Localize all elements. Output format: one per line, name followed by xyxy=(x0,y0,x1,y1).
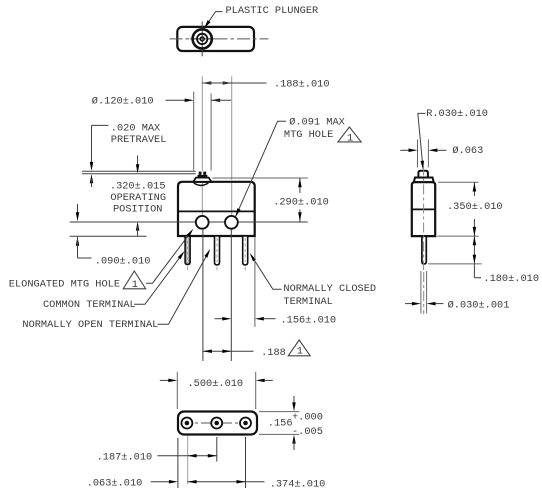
dimension .320 operating position arrows xyxy=(137,156,139,168)
svg-text:1: 1 xyxy=(132,279,138,291)
leader common terminal xyxy=(134,253,183,304)
dimension .290 dim line xyxy=(299,178,301,193)
side view centerline xyxy=(423,166,425,271)
svg-text:ELONGATED MTG HOLE: ELONGATED MTG HOLE xyxy=(9,278,120,290)
side view pin xyxy=(422,236,426,264)
leader elongated mtg hole xyxy=(146,231,192,283)
svg-text:.156: .156 xyxy=(268,418,293,430)
dimension .374 xyxy=(188,481,246,483)
svg-text:NORMALLY CLOSED: NORMALLY CLOSED xyxy=(283,283,376,295)
svg-text:PLASTIC PLUNGER: PLASTIC PLUNGER xyxy=(226,5,319,17)
flag triangle 1 (mtg hole) xyxy=(338,127,361,142)
dimension .120: leader and arrows xyxy=(166,99,191,101)
dimension .500 arrows xyxy=(160,379,169,381)
svg-text:.290±.010: .290±.010 xyxy=(273,197,329,209)
top view plunger inner circle xyxy=(200,37,204,41)
svg-text:.020 MAX: .020 MAX xyxy=(111,123,160,135)
dimension .180 dim line xyxy=(473,236,475,264)
svg-text:TERMINAL: TERMINAL xyxy=(283,296,332,308)
leader normally open terminal xyxy=(158,251,210,324)
svg-text:+.000: +.000 xyxy=(292,412,323,424)
dimension .020 pretravel arrows xyxy=(91,125,93,165)
centerline right hole axis (D) xyxy=(231,76,233,180)
svg-text:.063±.010: .063±.010 xyxy=(87,478,143,490)
extension line body right edge xyxy=(254,238,256,328)
plunger tip front view xyxy=(198,175,208,178)
dimension .188 top: dim line xyxy=(202,82,266,84)
plunger seat arc xyxy=(194,183,209,185)
dimension .500 extension lines xyxy=(176,372,178,409)
flag triangle (elongated mtg hole) xyxy=(123,271,146,289)
svg-text:.500±.010: .500±.010 xyxy=(188,378,244,390)
dimension .350 dim line xyxy=(473,182,475,196)
svg-text:1: 1 xyxy=(297,346,303,358)
leader R.030 xyxy=(418,113,426,166)
body bottom extension line left xyxy=(70,235,147,237)
svg-text:.350±.010: .350±.010 xyxy=(447,201,503,213)
svg-text:-.005: -.005 xyxy=(292,426,323,438)
leader mtg hole 0.091 xyxy=(236,121,286,216)
dimension .020 leader elbow xyxy=(92,124,109,126)
svg-text:OPERATING: OPERATING xyxy=(110,192,166,204)
dimension .350 extension lines xyxy=(438,181,478,183)
dimension .156 tol arrows xyxy=(293,396,295,406)
svg-text:.374±.010: .374±.010 xyxy=(270,479,326,491)
svg-text:.090±.010: .090±.010 xyxy=(95,256,151,268)
bottom view terminal 2 xyxy=(211,418,222,429)
svg-text:.320±.015: .320±.015 xyxy=(110,180,166,192)
front view body outline xyxy=(178,182,255,236)
hole centerline extension xyxy=(70,221,308,223)
svg-text:Ø.120±.010: Ø.120±.010 xyxy=(92,95,154,107)
svg-text:Ø.091 MAX: Ø.091 MAX xyxy=(289,117,345,129)
dimension .156 (hole to edge) xyxy=(215,318,224,320)
bottom view terminal 1 xyxy=(181,418,192,429)
svg-text:COMMON TERMINAL: COMMON TERMINAL xyxy=(43,299,136,311)
side view body xyxy=(412,182,435,236)
extension line left hole center to .188 dim xyxy=(202,230,204,361)
svg-text:MTG HOLE: MTG HOLE xyxy=(284,129,333,141)
svg-text:POSITION: POSITION xyxy=(113,203,162,215)
normally closed terminal pin (right) xyxy=(243,236,248,265)
flag triangle (.188) xyxy=(288,340,310,356)
svg-text:Ø.063: Ø.063 xyxy=(452,145,483,157)
normally open terminal pin (middle) xyxy=(215,236,220,265)
extension line plunger right (C) xyxy=(210,94,212,171)
side view plunger cap xyxy=(418,171,428,178)
svg-text:.188: .188 xyxy=(261,347,286,359)
right mounting hole xyxy=(225,216,238,229)
centerline plunger axis upper (B) xyxy=(201,76,203,171)
dimension .290: extension lines xyxy=(213,177,308,179)
bottom view terminal 3 xyxy=(240,418,251,429)
dimension 0.063 arrows xyxy=(400,149,411,151)
leader plastic plunger xyxy=(204,12,223,29)
free position line xyxy=(82,170,196,172)
top view body outline xyxy=(177,27,254,51)
top view plunger horizontal crosshair xyxy=(190,38,215,40)
top view horizontal centerline xyxy=(170,38,269,40)
common terminal pin (left, shaded) xyxy=(185,236,190,265)
svg-text:Ø.030±.001: Ø.030±.001 xyxy=(448,299,510,311)
bottom view centerline xyxy=(181,422,255,424)
top view plunger outer circle xyxy=(193,29,212,48)
extension line terminal3 below xyxy=(245,437,247,488)
extension line terminal2 below xyxy=(216,437,218,462)
front view internal line xyxy=(178,210,255,212)
leader normally closed terminal xyxy=(251,255,281,289)
dimension .188 (hole spacing bottom) xyxy=(203,350,231,352)
svg-text:NORMALLY OPEN TERMINAL: NORMALLY OPEN TERMINAL xyxy=(22,319,158,331)
svg-text:PRETRAVEL: PRETRAVEL xyxy=(111,134,167,146)
svg-text:.187±.010: .187±.010 xyxy=(97,452,153,464)
dimension 0.063 extension lines xyxy=(417,140,419,168)
extension line rect left edge xyxy=(177,438,179,488)
left mounting hole xyxy=(196,216,209,229)
dimension 0.030 extension lines xyxy=(420,271,422,314)
svg-text:R.030±.010: R.030±.010 xyxy=(426,108,488,120)
extension line plunger left (A) xyxy=(193,92,195,171)
dimension .090 arrows xyxy=(77,204,79,216)
top view plunger vertical crosshair xyxy=(201,22,203,57)
centerline terminal 1 below bottom view xyxy=(187,435,189,484)
svg-text:.188±.010: .188±.010 xyxy=(274,79,330,91)
dimension 0.030 arrows xyxy=(405,303,413,305)
operating position line xyxy=(82,173,196,175)
extension line right hole center to .188 dim xyxy=(230,230,232,362)
top view plunger middle circle xyxy=(197,34,207,44)
svg-text:.156±.010: .156±.010 xyxy=(281,314,337,326)
pin tip extension line xyxy=(428,263,482,265)
bottom view body outline xyxy=(178,412,257,435)
svg-text:1: 1 xyxy=(347,133,353,145)
side view collar xyxy=(414,178,434,183)
plunger collar front view xyxy=(193,178,211,182)
svg-text:.180±.010: .180±.010 xyxy=(483,273,539,285)
side view internal line xyxy=(412,208,435,210)
centerline plunger axis inside body xyxy=(201,183,203,217)
dimension .156 tol extension lines xyxy=(259,411,299,413)
